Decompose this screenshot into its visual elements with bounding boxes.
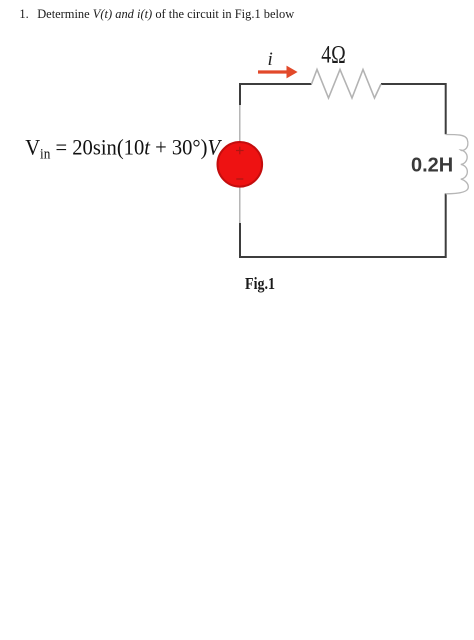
svg-text:4Ω: 4Ω [321, 41, 346, 68]
svg-text:Vin = 20sin(10t + 30°)V: Vin = 20sin(10t + 30°)V [25, 135, 223, 163]
svg-text:0.2H: 0.2H [411, 155, 453, 177]
svg-text:1.: 1. [19, 7, 28, 21]
svg-text:Fig.1: Fig.1 [245, 274, 275, 293]
svg-text:i: i [268, 49, 273, 70]
svg-text:Determine V(t) and i(t) of the: Determine V(t) and i(t) of the circuit i… [37, 7, 294, 21]
